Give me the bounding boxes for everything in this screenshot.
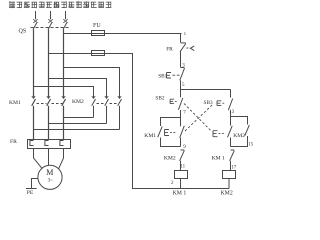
svg-text:KM1: KM1 bbox=[9, 100, 21, 106]
svg-text:FU: FU bbox=[93, 23, 101, 29]
svg-text:QS: QS bbox=[19, 28, 27, 34]
svg-text:KM2: KM2 bbox=[164, 155, 176, 161]
svg-text:KM2: KM2 bbox=[233, 133, 245, 139]
svg-text:KM 1: KM 1 bbox=[212, 155, 225, 161]
svg-text:KM2: KM2 bbox=[221, 191, 233, 197]
svg-text:M: M bbox=[46, 168, 53, 177]
svg-text:FR: FR bbox=[166, 47, 173, 53]
svg-text:11: 11 bbox=[180, 164, 185, 169]
svg-text:KM1: KM1 bbox=[144, 133, 156, 139]
svg-text:SB3: SB3 bbox=[204, 100, 213, 106]
svg-text:13: 13 bbox=[229, 110, 235, 115]
svg-text:SB1: SB1 bbox=[158, 73, 167, 79]
svg-text:PE: PE bbox=[27, 190, 34, 196]
svg-text:15: 15 bbox=[248, 143, 254, 148]
svg-text:KM2: KM2 bbox=[72, 99, 84, 105]
svg-text:SB2: SB2 bbox=[155, 95, 164, 101]
svg-text:17: 17 bbox=[231, 165, 237, 170]
svg-text:3~: 3~ bbox=[48, 177, 54, 183]
svg-text:KM 1: KM 1 bbox=[173, 191, 187, 197]
svg-text:FR: FR bbox=[10, 139, 17, 145]
